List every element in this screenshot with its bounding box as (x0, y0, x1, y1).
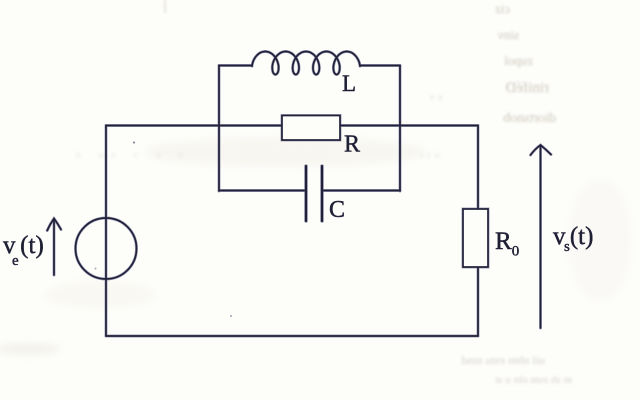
svg-text:n ue c a e: n ue c a e (75, 147, 190, 161)
svg-text:sinv: sinv (497, 27, 519, 42)
svg-text:C: C (329, 197, 345, 223)
resistor R body (282, 116, 340, 141)
wire tank bottom left segment (219, 190, 306, 192)
svg-text:L: L (342, 71, 356, 96)
wire tank left vertical (218, 66, 221, 192)
svg-text:i s u: i s u (420, 147, 440, 161)
wire right vertical lower (477, 267, 480, 336)
svg-text:zupol: zupol (504, 53, 533, 68)
arrow ve head (47, 219, 61, 231)
arrow vs shaft (540, 146, 542, 328)
svg-text:uil nbm estu nmd: uil nbm estu nmd (461, 353, 545, 367)
wire tank top left stub (219, 64, 252, 67)
arrow ve head (47, 219, 61, 231)
wire right vertical upper (477, 126, 480, 210)
inductor L coil (252, 52, 360, 75)
wire main top right segment (340, 125, 478, 127)
resistor R0 body (463, 209, 488, 267)
arrow vs head (531, 145, 552, 155)
arrow ve shaft (53, 219, 56, 275)
wire tank left vertical (218, 66, 220, 192)
capacitor C left plate (305, 166, 307, 221)
wire tank right vertical (399, 66, 402, 192)
resistor R body (282, 116, 340, 141)
svg-text:riniféD: riniféD (506, 80, 549, 96)
wire tank top right stub (360, 65, 400, 67)
bleedthrough text top right (495, 1, 556, 126)
voltage source circle (76, 218, 137, 279)
voltage source circle (76, 218, 137, 279)
svg-text:m sb zsm oln u st: m sb zsm oln u st (495, 374, 572, 386)
speck near top wire (133, 141, 135, 143)
svg-text:diortsnob: diortsnob (503, 111, 556, 126)
arrow vs head (531, 145, 552, 155)
wire tank bottom left segment (219, 189, 306, 192)
bleedthrough text bottom (461, 353, 572, 386)
svg-text:ciz: ciz (495, 1, 510, 16)
wire tank right vertical (399, 66, 401, 192)
arrow ve shaft (53, 219, 55, 275)
paper tone washes (0, 138, 630, 354)
wire right vertical lower (477, 267, 479, 336)
wire left vertical (105, 126, 107, 337)
wire main top left segment (106, 124, 282, 127)
svg-text:e a: e a (430, 91, 443, 103)
wire tank top left stub (219, 65, 252, 67)
wire tank top right stub (360, 64, 400, 67)
wire left vertical (105, 126, 108, 337)
speck on bottom wire area (230, 315, 232, 317)
wire bottom (106, 335, 478, 337)
capacitor C right plate (320, 166, 324, 221)
wire right vertical upper (477, 126, 479, 210)
wire bottom (106, 335, 478, 338)
inductor L coil (252, 52, 360, 75)
faint mid smudges (75, 91, 443, 161)
capacitor C right plate (321, 166, 323, 221)
wire main top left segment (106, 125, 282, 127)
resistor R0 body (463, 209, 488, 267)
wire main top right segment (340, 124, 478, 127)
arrow vs shaft (539, 146, 542, 328)
svg-text:R: R (344, 132, 360, 158)
wire tank bottom right segment (322, 189, 400, 192)
capacitor C left plate (304, 166, 308, 221)
faint scan streak top (164, 0, 166, 13)
wire tank bottom right segment (322, 190, 400, 192)
speck in source circle (95, 268, 97, 270)
